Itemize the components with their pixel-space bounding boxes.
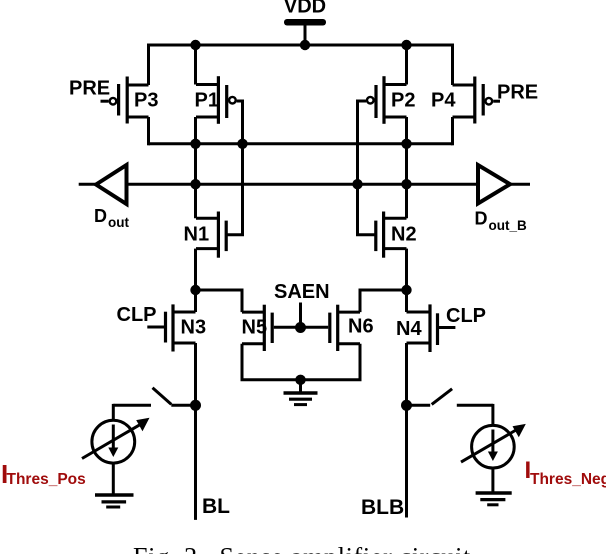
transistor P1 (196, 76, 243, 144)
caption Fig. 2 (133, 543, 471, 554)
svg-text:D: D (475, 209, 488, 229)
label N5 (242, 316, 268, 338)
node BL switch junction (190, 400, 201, 411)
label N3 (181, 317, 207, 339)
svg-text:N5: N5 (242, 316, 268, 338)
label Dout_B (475, 209, 527, 234)
svg-text:SAEN: SAEN (274, 281, 330, 303)
wire node line1 (cross-coupled net) (149, 142, 453, 145)
node junction dots on line1 (190, 139, 411, 149)
label BL (202, 495, 230, 518)
switch left (open) (113, 388, 195, 406)
transistor P4 (453, 77, 501, 124)
wire right mid to N6 (360, 290, 407, 312)
wire left mid to N5 (196, 290, 243, 312)
label N1 (184, 223, 210, 245)
svg-text:PRE: PRE (497, 82, 538, 104)
wire left column N3 source to BL switch node (194, 343, 197, 405)
wire N5/N6 source bus (242, 344, 360, 380)
wire left column N3 to switch (194, 290, 197, 312)
svg-text:out: out (108, 215, 129, 230)
transistor N3 (147, 304, 195, 351)
svg-text:out_B: out_B (489, 218, 527, 233)
svg-text:CLP: CLP (446, 305, 486, 327)
wire right outer column (P4 drain to line1) (451, 117, 454, 145)
wire top rail (149, 44, 453, 47)
svg-text:CLP: CLP (117, 304, 157, 326)
wire right outer column (rail to P4 source) (451, 44, 454, 86)
label BLB (361, 496, 404, 519)
wire right column N4 to switch (405, 290, 408, 312)
wire right inner column (P2 drain to N2 drain) (405, 117, 408, 218)
svg-text:N2: N2 (391, 223, 417, 245)
node BLB switch junction (401, 400, 412, 411)
wire BLB line (405, 405, 408, 517)
label P4 (431, 90, 456, 112)
transistor N5 (242, 305, 301, 351)
buffer Dout (left, points left) (96, 165, 127, 204)
svg-text:VDD: VDD (284, 0, 326, 18)
transistor N1 (196, 144, 243, 258)
transistor N4 (407, 304, 456, 352)
current source I_Thres_Pos (82, 404, 150, 507)
svg-text:Thres_Neg: Thres_Neg (530, 471, 606, 488)
label CLP (right) (446, 305, 486, 327)
svg-text:P4: P4 (431, 90, 456, 112)
node rail-left junction (190, 40, 200, 50)
wire VDD stub (304, 24, 307, 46)
wire SAEN stub (299, 303, 302, 328)
buffer Dout_B (right, points right) (478, 165, 510, 204)
node right mid junction (401, 285, 411, 295)
svg-text:D: D (94, 206, 107, 226)
wire left outer column (P3 drain to line1) (147, 117, 150, 145)
node junction dots on line2 (190, 179, 411, 189)
node source bus junction (295, 375, 305, 385)
svg-text:N3: N3 (181, 317, 207, 339)
node SAEN gate junction (295, 322, 306, 333)
wire BL line (194, 405, 197, 520)
label P1 (195, 90, 219, 112)
svg-text:Fig. 2. Sense amplifier circu: Fig. 2. Sense amplifier circuit (133, 543, 471, 554)
label N6 (348, 316, 374, 338)
transistor P3 (101, 77, 149, 124)
current source I_Thres_Neg (461, 404, 526, 505)
label P2 (391, 90, 415, 112)
wire left inner column (P1 drain to N1 drain) (194, 117, 197, 218)
svg-text:PRE: PRE (69, 78, 110, 100)
node left mid junction (190, 285, 200, 295)
label PRE (left) (69, 78, 110, 100)
label PRE (right) (497, 82, 538, 104)
svg-text:Thres_Pos: Thres_Pos (7, 471, 86, 488)
wire node line2 (Dout net) (79, 183, 530, 186)
label N2 (391, 223, 417, 245)
label SAEN (274, 281, 330, 303)
svg-text:P2: P2 (391, 90, 415, 112)
wire right inner column x=406.5 (405, 45, 408, 85)
switch right (open) (407, 389, 493, 406)
svg-text:P1: P1 (195, 90, 219, 112)
label N4 (396, 318, 422, 340)
svg-text:N1: N1 (184, 223, 210, 245)
wire left outer column (rail to P3 source) (147, 44, 150, 86)
net VDD label (284, 0, 326, 18)
wire right column N4 source to BLB switch node (405, 343, 408, 405)
node VDD junction (300, 40, 310, 50)
VDD supply bar (284, 19, 326, 26)
label P3 (134, 90, 158, 112)
node rail-right junction (401, 40, 411, 50)
wire left inner column x=195.5 (194, 45, 197, 85)
svg-text:N4: N4 (396, 318, 422, 340)
svg-text:BLB: BLB (361, 496, 404, 519)
ground center (284, 380, 318, 405)
label I_Thres_Pos (1, 459, 86, 489)
wire left inner column (N1 source down to N3) (194, 249, 197, 312)
label Dout (94, 206, 129, 230)
transistor N2 (358, 184, 407, 258)
svg-text:BL: BL (202, 495, 230, 518)
label CLP (left) (117, 304, 157, 326)
label I_Thres_Neg (525, 457, 606, 488)
svg-text:N6: N6 (348, 316, 374, 338)
transistor P2 (358, 76, 407, 184)
svg-text:P3: P3 (134, 90, 158, 112)
transistor N6 (301, 305, 361, 351)
wire right inner column (N2 source down to N4) (405, 249, 408, 312)
